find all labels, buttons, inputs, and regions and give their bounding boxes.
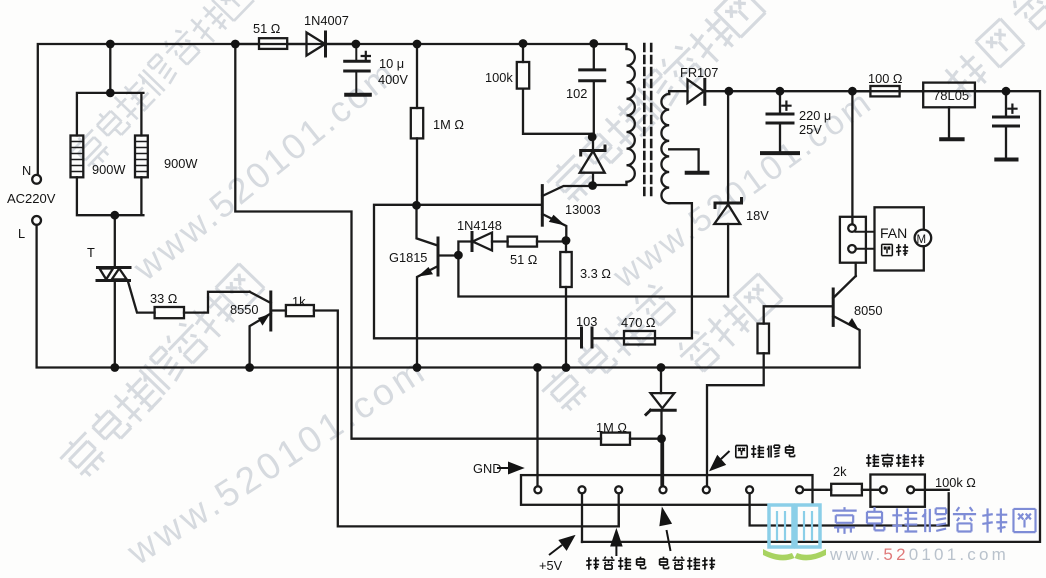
svg-text:470 Ω: 470 Ω (621, 315, 656, 330)
svg-text:102: 102 (566, 86, 587, 101)
svg-text:1M Ω: 1M Ω (596, 420, 627, 435)
svg-text:10 μ: 10 μ (379, 56, 404, 71)
svg-text:8550: 8550 (230, 302, 258, 317)
svg-text:1k: 1k (292, 294, 306, 309)
svg-text:+5V: +5V (539, 558, 563, 573)
svg-text:51 Ω: 51 Ω (253, 21, 281, 36)
svg-text:220 μ: 220 μ (799, 108, 831, 123)
svg-text:M: M (917, 234, 927, 246)
svg-text:1N4007: 1N4007 (304, 13, 349, 28)
svg-text:900W: 900W (92, 162, 126, 177)
svg-text:78L05: 78L05 (933, 88, 969, 103)
svg-text:2k: 2k (833, 464, 847, 479)
svg-text:www.520101.com: www.520101.com (829, 545, 1009, 564)
svg-text:L: L (18, 226, 25, 241)
svg-text:100k Ω: 100k Ω (935, 475, 976, 490)
svg-text:100 Ω: 100 Ω (868, 71, 903, 86)
svg-text:FR107: FR107 (680, 65, 718, 80)
svg-text:T: T (87, 245, 95, 260)
svg-text:8050: 8050 (854, 303, 882, 318)
svg-text:103: 103 (576, 314, 597, 329)
svg-text:1N4148: 1N4148 (457, 218, 502, 233)
svg-text:51 Ω: 51 Ω (510, 252, 538, 267)
svg-text:G1815: G1815 (389, 250, 427, 265)
svg-text:33 Ω: 33 Ω (150, 291, 178, 306)
svg-text:AC220V: AC220V (7, 191, 56, 206)
svg-text:3.3 Ω: 3.3 Ω (580, 266, 611, 281)
svg-text:N: N (22, 163, 31, 178)
svg-text:FAN: FAN (880, 225, 907, 241)
svg-text:100k: 100k (485, 70, 513, 85)
svg-text:900W: 900W (164, 156, 198, 171)
svg-text:18V: 18V (746, 208, 769, 223)
svg-text:1M Ω: 1M Ω (433, 117, 464, 132)
svg-text:www.520101.com: www.520101.com (119, 349, 434, 573)
svg-text:25V: 25V (799, 122, 822, 137)
svg-text:400V: 400V (378, 72, 408, 87)
svg-text:GND: GND (473, 461, 501, 476)
svg-text:13003: 13003 (565, 202, 601, 217)
